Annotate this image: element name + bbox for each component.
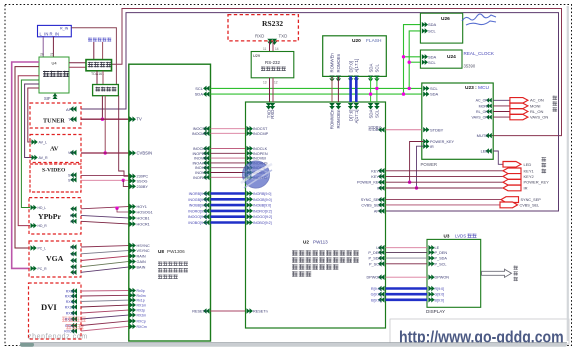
pin U24 SDA bbox=[422, 54, 425, 59]
pin U2 INORB[9:0] bus bbox=[247, 191, 250, 197]
pin RX2p bbox=[74, 310, 77, 315]
svg-text:SDA: SDA bbox=[430, 92, 439, 97]
svg-text:AC_ON: AC_ON bbox=[476, 99, 489, 103]
pin U23 RL_ON bbox=[489, 109, 492, 114]
pin U23 VAVS_ON bbox=[489, 115, 492, 120]
svg-text:230PC: 230PC bbox=[137, 175, 149, 179]
pin HD_R bbox=[31, 223, 34, 228]
pin U23 LED bbox=[488, 148, 491, 153]
svg-text:RESETn: RESETn bbox=[192, 310, 207, 314]
svg-text:230BY: 230BY bbox=[137, 185, 149, 189]
wire RX0m to U8 bbox=[81, 294, 129, 297]
svg-text:POWER_KEY: POWER_KEY bbox=[430, 140, 455, 144]
wire U20 ROMWEn to U2 bbox=[331, 76, 333, 102]
wires U4 to audio amp bbox=[69, 62, 86, 64]
pin U2 P_SCL bbox=[381, 261, 384, 267]
svg-text:SCL: SCL bbox=[428, 29, 437, 34]
pin RX0p bbox=[74, 288, 77, 293]
svg-text:SDA: SDA bbox=[428, 54, 437, 59]
pin U3 B[9:0] bus bbox=[428, 297, 431, 302]
svg-text:POWER: POWER bbox=[421, 162, 438, 167]
pin U2 top ROMOEn bbox=[336, 103, 342, 106]
svg-text:KEY2: KEY2 bbox=[371, 175, 381, 179]
bus INORB[9:0] bbox=[211, 192, 246, 195]
bottom scrollbar bbox=[20, 343, 567, 347]
wire INOCMP bbox=[211, 132, 246, 134]
junction SCL riser base bbox=[408, 87, 411, 90]
block U8 PW1306 ADC/video decoder bbox=[129, 64, 211, 341]
wire SDA stub to U24 bbox=[404, 56, 422, 58]
wire Pr to U8 bbox=[81, 221, 129, 224]
wire AC_ON to power tag bbox=[493, 99, 510, 101]
svg-text:INOCST: INOCST bbox=[193, 127, 208, 131]
wires amp to select box bbox=[96, 71, 98, 85]
pin U8 RXCm bbox=[130, 324, 133, 330]
svg-text:U4: U4 bbox=[51, 61, 57, 66]
wire INOCST bbox=[211, 128, 246, 130]
svg-text:AV: AV bbox=[50, 146, 59, 153]
svg-text:B[9:0]: B[9:0] bbox=[371, 298, 381, 302]
wire HS to U8 bbox=[81, 246, 129, 248]
pin U2 B[9:0] bbox=[381, 297, 384, 303]
svg-text:INOCST: INOCST bbox=[253, 127, 268, 131]
svg-text:INOBO[9:2]: INOBO[9:2] bbox=[188, 221, 207, 225]
wire SCL stub to U24 bbox=[409, 61, 421, 63]
svg-text:INOGB[9:0]: INOGB[9:0] bbox=[253, 198, 272, 202]
svg-text:INOPEN: INOPEN bbox=[192, 152, 207, 156]
svg-text:VAVS_ON: VAVS_ON bbox=[472, 116, 489, 120]
pin Y bbox=[73, 206, 76, 211]
wire audio trunk bbox=[18, 76, 39, 226]
svg-text:PC_L: PC_L bbox=[38, 247, 47, 251]
svg-text:ROMOEn: ROMOEn bbox=[336, 109, 341, 129]
wire INOAHS bbox=[211, 162, 246, 164]
pin U20 A[17:1] bbox=[354, 76, 359, 79]
svg-text:A[17:1]: A[17:1] bbox=[354, 110, 359, 124]
wire RX2m to U8 bbox=[81, 315, 129, 319]
wire SDA riser bbox=[404, 25, 422, 95]
svg-text:MUTE: MUTE bbox=[477, 133, 489, 138]
svg-text:G[9:0]: G[9:0] bbox=[435, 293, 445, 297]
bus INOGB[9:0] bbox=[211, 198, 246, 201]
wire select to TV line bbox=[101, 96, 103, 120]
svg-text:A[17:1]: A[17:1] bbox=[354, 59, 359, 73]
svg-text:PC_R: PC_R bbox=[38, 267, 48, 271]
block audio amplifier bbox=[86, 60, 112, 71]
block U2 PW113 scaler bbox=[246, 102, 386, 328]
pin U8 RX2m bbox=[130, 312, 133, 318]
svg-text:S-C: S-C bbox=[68, 174, 75, 178]
wire AFT net (tuner AFT riser along top to U2 AFT pin) bbox=[81, 13, 559, 211]
wire LED to tag bbox=[493, 151, 503, 164]
svg-text:13: 13 bbox=[263, 81, 267, 85]
wire U20 SCL to U2 bbox=[376, 76, 378, 102]
svg-text:zhenfengdz com: zhenfengdz com bbox=[28, 334, 88, 341]
svg-text:25: 25 bbox=[50, 53, 54, 57]
svg-text:TDA161: TDA161 bbox=[91, 72, 104, 76]
junction SDA drop bbox=[369, 92, 372, 95]
svg-text:SIF: SIF bbox=[44, 96, 51, 101]
svg-text:Rx1p: Rx1p bbox=[137, 299, 145, 303]
wire audio L to U4 bbox=[42, 37, 44, 57]
pin U8 INOPEN bbox=[206, 151, 209, 157]
wire U23 IR branch bbox=[417, 146, 424, 188]
wire I2C SDA bus bbox=[211, 93, 422, 95]
wire audio trunk bbox=[25, 84, 39, 158]
pin U8 SSOG bbox=[130, 178, 133, 184]
svg-text:INORB[9:0]: INORB[9:0] bbox=[189, 192, 207, 196]
svg-text:D[7:0]: D[7:0] bbox=[348, 110, 353, 122]
svg-text:SDA: SDA bbox=[428, 22, 437, 27]
wire INOCLK bbox=[211, 148, 246, 150]
svg-text:INOBB[9:0]: INOBB[9:0] bbox=[189, 204, 207, 208]
svg-text:RX1m: RX1m bbox=[137, 304, 147, 308]
svg-text:KEY1: KEY1 bbox=[371, 169, 381, 173]
pin U2 top SCL bbox=[374, 103, 380, 106]
svg-text:SYNC_SEP: SYNC_SEP bbox=[361, 198, 382, 202]
wire audio trunk bbox=[15, 67, 39, 248]
pin U2 P_DEN bbox=[381, 250, 384, 256]
svg-text:HOSOG1: HOSOG1 bbox=[137, 211, 153, 215]
pin U8 INORB[9:0] bus bbox=[206, 191, 209, 197]
pin U8 HOCB1 bbox=[130, 215, 133, 221]
pin U20 ROMOEn bbox=[336, 76, 341, 79]
svg-text:RXD: RXD bbox=[255, 34, 264, 39]
svg-text:11: 11 bbox=[263, 47, 267, 51]
svg-text:HD_R: HD_R bbox=[38, 224, 48, 228]
svg-text:SCL: SCL bbox=[375, 64, 380, 73]
pin U2 INOCLK bbox=[247, 146, 250, 152]
svg-text:SDA: SDA bbox=[195, 92, 204, 97]
svg-text:U8: U8 bbox=[158, 249, 164, 254]
pin U2 INOHS bbox=[247, 165, 250, 171]
pin U3 R[9:0] bus bbox=[428, 286, 431, 291]
pin U2 INOCMP bbox=[247, 131, 250, 137]
wire VAVS_ON to power tag bbox=[493, 116, 510, 118]
pin U2 INOGO[9:2] bus bbox=[247, 214, 250, 220]
wire audio R to U4 bbox=[52, 37, 54, 57]
tag RL_ON bbox=[510, 109, 528, 114]
pin U8 HOCR1 bbox=[130, 221, 133, 227]
svg-text:LE: LE bbox=[435, 246, 440, 250]
wire INOVBI bbox=[211, 157, 246, 159]
svg-text:INOPEN: INOPEN bbox=[253, 152, 268, 156]
pin U8 SCL bbox=[206, 86, 209, 92]
wire S-Y branch bbox=[123, 179, 129, 181]
pin U2 INOVBI bbox=[247, 155, 250, 161]
block U23 MCU bbox=[422, 83, 493, 159]
pin U8 SDA bbox=[206, 91, 209, 97]
pin U8 Rx1p bbox=[130, 297, 133, 303]
pin U8 RESETn bbox=[206, 308, 209, 314]
wire STDBY bbox=[386, 129, 422, 131]
svg-text:RL_ON: RL_ON bbox=[476, 110, 488, 114]
pin U8 INOFLD bbox=[206, 175, 209, 181]
block U24 real time clock bbox=[420, 50, 462, 68]
svg-text:R: R bbox=[72, 259, 75, 263]
svg-text:B[9:0]: B[9:0] bbox=[435, 298, 444, 302]
svg-text:R[9:0]: R[9:0] bbox=[435, 287, 445, 291]
pin U8 INOAHS bbox=[206, 160, 209, 166]
svg-text:RXD: RXD bbox=[270, 110, 275, 119]
svg-text:VSYNC: VSYNC bbox=[137, 249, 150, 253]
pin U8 HOY1 bbox=[130, 204, 133, 210]
pin U8 Rx0p bbox=[130, 288, 133, 294]
pin R bbox=[73, 258, 76, 263]
svg-text:LE: LE bbox=[376, 246, 381, 250]
pin RX1m bbox=[74, 304, 77, 309]
svg-text:VIN: VIN bbox=[68, 151, 74, 155]
svg-text:SCL: SCL bbox=[428, 60, 437, 65]
svg-text:26: 26 bbox=[40, 53, 44, 57]
svg-text:CVBS_SEL: CVBS_SEL bbox=[520, 203, 540, 207]
svg-text:AV_L: AV_L bbox=[39, 141, 48, 145]
block U3 LVDS encoder bbox=[427, 239, 481, 307]
svg-text:D[7:0]: D[7:0] bbox=[348, 61, 353, 72]
wire U20 ROMOEn to U2 bbox=[337, 76, 339, 102]
svg-text:SDA: SDA bbox=[368, 109, 373, 118]
pin AV_L bbox=[32, 139, 35, 144]
pin HD_L bbox=[31, 205, 34, 210]
pin U2 G[9:0] bbox=[381, 291, 384, 297]
junction POWER_KEY bbox=[408, 181, 411, 184]
junction select-TV bbox=[101, 118, 104, 121]
svg-text:TUNER: TUNER bbox=[43, 118, 65, 125]
pin U23 STDBY bbox=[423, 127, 426, 132]
pin U23 MUTE bbox=[488, 133, 491, 138]
pin U8 INOCST bbox=[206, 126, 209, 132]
svg-text:AV_R: AV_R bbox=[39, 156, 49, 160]
wire RX0p to U8 bbox=[81, 290, 129, 293]
wire U29 TXD to U2 bbox=[269, 78, 271, 102]
svg-text:INOGB[9:0]: INOGB[9:0] bbox=[188, 198, 207, 202]
keypad vertical label bbox=[542, 157, 547, 173]
svg-text:TV: TV bbox=[137, 117, 143, 122]
wire select to CVBS line bbox=[104, 96, 106, 153]
pin U8 INOGO[9:2] bus bbox=[206, 214, 209, 220]
svg-text:IR: IR bbox=[377, 187, 381, 191]
connector AV bbox=[30, 135, 81, 163]
svg-text:RX1m: RX1m bbox=[65, 306, 75, 310]
wire Y to U8 bbox=[81, 207, 129, 209]
pin U2 top D[7:0] bbox=[348, 103, 354, 106]
wire MONI to power tag bbox=[493, 105, 510, 107]
svg-text:POWER_KEY: POWER_KEY bbox=[357, 181, 382, 185]
bus INOBO[9:2] bbox=[211, 221, 246, 224]
svg-text:DVI: DVI bbox=[41, 302, 57, 312]
wire KEY2 from U2 bbox=[386, 175, 504, 177]
pin U8 Rx0m bbox=[130, 293, 133, 299]
pin VIN bbox=[73, 150, 77, 156]
svg-text:Pb: Pb bbox=[70, 214, 74, 218]
wire INOFLD bbox=[211, 176, 246, 178]
svg-text:P_DEN: P_DEN bbox=[368, 251, 381, 255]
svg-text:AC_ON: AC_ON bbox=[530, 98, 544, 103]
junction SDA U24 bbox=[402, 55, 405, 58]
svg-text:RAIN: RAIN bbox=[137, 255, 146, 259]
svg-text:ROMWEn: ROMWEn bbox=[330, 53, 335, 73]
pin U26 SDA bbox=[422, 22, 425, 27]
svg-text:STDBY: STDBY bbox=[368, 125, 381, 129]
svg-text:DPWON: DPWON bbox=[366, 276, 381, 280]
svg-text:HOY1: HOY1 bbox=[137, 205, 147, 209]
svg-text:GAIN: GAIN bbox=[137, 260, 147, 264]
wire B to U8 bbox=[81, 267, 129, 272]
wire INOVS bbox=[211, 172, 246, 174]
svg-text:U29: U29 bbox=[253, 54, 260, 58]
svg-text:L_IN R_IN: L_IN R_IN bbox=[40, 32, 60, 37]
svg-text:35390: 35390 bbox=[464, 64, 476, 69]
svg-text:INOCMP: INOCMP bbox=[253, 132, 269, 136]
pin U2 SYNC_SEP bbox=[381, 197, 384, 203]
pin U20 D[7:0] bbox=[348, 76, 353, 79]
pin U2 INOGB[9:0] bus bbox=[247, 197, 250, 203]
pin U23 MONI bbox=[489, 103, 492, 108]
wire U20 D[7:0] to U2 bbox=[349, 76, 352, 102]
svg-text:RXCp: RXCp bbox=[137, 320, 146, 324]
wire S-C to U8 bbox=[81, 175, 129, 177]
tag CVBS_SEL bbox=[500, 202, 518, 208]
svg-text:AFT: AFT bbox=[66, 107, 74, 112]
pin SIF bbox=[53, 96, 58, 99]
svg-text:SCL: SCL bbox=[430, 86, 439, 91]
wire P_SCL U2 to U3 bbox=[386, 263, 428, 265]
svg-text:SCL: SCL bbox=[195, 86, 204, 91]
svg-text:RESETn: RESETn bbox=[253, 310, 268, 314]
wire INOHS bbox=[211, 167, 246, 169]
svg-text:G[9:0]: G[9:0] bbox=[371, 293, 381, 297]
power board vertical label bbox=[553, 96, 558, 112]
wire TXD to U29 bbox=[272, 41, 274, 52]
svg-text:KEY2: KEY2 bbox=[524, 174, 535, 179]
svg-text:Rx0p: Rx0p bbox=[137, 289, 145, 293]
pin U2 P_SDA bbox=[381, 255, 384, 261]
pin Pb bbox=[73, 213, 76, 218]
pin U8 VSYNC bbox=[130, 248, 133, 254]
audio input connector J1 L_IN R_IN bbox=[38, 25, 72, 36]
pin U23 SCL bbox=[423, 86, 426, 91]
pin AFT bbox=[73, 106, 77, 112]
wire RL_ON to power tag bbox=[493, 111, 510, 113]
wire DPWON U2 to U3 bbox=[386, 276, 428, 278]
svg-text:G: G bbox=[72, 265, 75, 269]
svg-text:P_SCL: P_SCL bbox=[369, 262, 381, 266]
pin U20 SDA bbox=[368, 76, 373, 79]
pin U24 SCL bbox=[422, 60, 425, 65]
svg-text:POWER_KEY: POWER_KEY bbox=[524, 180, 550, 185]
pin G bbox=[73, 264, 76, 269]
svg-text:HD_L: HD_L bbox=[38, 206, 47, 210]
wire Y SOG branch bbox=[117, 208, 129, 212]
pin U8 RAIN bbox=[130, 253, 133, 259]
pin U8 GAIN bbox=[130, 259, 133, 265]
svg-text:RS-232: RS-232 bbox=[265, 60, 280, 65]
wire SCL riser bbox=[409, 31, 421, 89]
bus B[9:0] U2 to U3 bbox=[386, 298, 428, 301]
junction IR bbox=[415, 186, 418, 189]
pin U23 POWER_KEY bbox=[423, 139, 426, 144]
svg-text:INOHS: INOHS bbox=[195, 166, 207, 170]
svg-text:RS232: RS232 bbox=[262, 19, 283, 28]
pin U3 LE bbox=[428, 245, 431, 250]
wire I2C SCL bus bbox=[211, 87, 422, 89]
svg-text:RL_ON: RL_ON bbox=[530, 109, 543, 114]
pin U8 RXCp bbox=[130, 318, 133, 324]
svg-text:CVBS_SEL: CVBS_SEL bbox=[361, 203, 381, 207]
svg-text:U23 :: U23 : bbox=[465, 85, 477, 91]
wire SYNC_SEP bbox=[386, 199, 502, 201]
wire Pb to U8 bbox=[81, 215, 129, 218]
wire LE U2 to U3 bbox=[386, 247, 428, 249]
red stamp watermark bbox=[62, 317, 86, 330]
pin RX1p bbox=[74, 299, 77, 304]
wire audio trunk bbox=[28, 88, 39, 142]
svg-text:BAIN: BAIN bbox=[137, 266, 146, 270]
svg-text:14: 14 bbox=[275, 47, 279, 51]
svg-text:ROMWEn: ROMWEn bbox=[330, 109, 335, 129]
pin U8 230PC bbox=[130, 173, 133, 179]
svg-text:PW1306: PW1306 bbox=[167, 249, 185, 254]
svg-text:R_IN: R_IN bbox=[60, 26, 69, 30]
wire speaker left bbox=[93, 42, 95, 60]
pin U2 CVBS_SEL bbox=[381, 202, 384, 208]
junction select-CVBS bbox=[104, 151, 107, 154]
tag KEY1 bbox=[503, 168, 521, 174]
pin U8 HSYNC bbox=[130, 243, 133, 249]
pin U2 R[9:0] bbox=[381, 286, 384, 292]
svg-text:KEY1: KEY1 bbox=[524, 168, 535, 173]
wire CVBS_SEL bbox=[386, 204, 501, 206]
svg-text:SDA: SDA bbox=[368, 64, 373, 73]
svg-text:HOCB1: HOCB1 bbox=[137, 217, 150, 221]
connector YPbPr bbox=[29, 198, 81, 234]
svg-text:SSOG: SSOG bbox=[137, 179, 148, 183]
wire VS to U8 bbox=[81, 251, 129, 254]
pin AV_R bbox=[32, 155, 35, 160]
svg-text:Rx0m: Rx0m bbox=[137, 294, 146, 298]
pin U8 RX1m bbox=[130, 302, 133, 308]
wire U23 POWER_KEY branch bbox=[410, 142, 424, 183]
pin U2 KEY1 bbox=[381, 168, 384, 174]
svg-text:RX2p: RX2p bbox=[66, 312, 75, 316]
wire P_DEN U2 to U3 bbox=[386, 251, 428, 253]
pin RXCp bbox=[74, 323, 77, 328]
pin RXCm bbox=[74, 328, 77, 333]
svg-text:INOAHS: INOAHS bbox=[192, 161, 207, 165]
pin U2 POWER_KEY bbox=[381, 179, 384, 185]
pin U3 P_DEN bbox=[428, 250, 431, 255]
wire speaker right bbox=[102, 42, 104, 60]
pin U23 IR bbox=[423, 144, 426, 149]
arrow to panel bbox=[482, 269, 512, 277]
svg-text:HS: HS bbox=[70, 246, 76, 250]
svg-text:INOVBI: INOVBI bbox=[253, 157, 266, 161]
svg-text:PW113: PW113 bbox=[313, 240, 328, 245]
pin RX2m bbox=[74, 316, 77, 321]
svg-text:INOVS: INOVS bbox=[195, 171, 207, 175]
connector DVI bbox=[29, 283, 82, 339]
pin U8 INOVS bbox=[206, 170, 209, 176]
pin RX0m bbox=[74, 293, 77, 298]
wire audio trunk bbox=[12, 62, 39, 268]
panel vertical label bbox=[514, 266, 518, 282]
pin U8 CVBSIN bbox=[130, 150, 133, 156]
pin U2 INORO[9:2] bus bbox=[247, 208, 250, 214]
pin U2 INOAHS bbox=[247, 160, 250, 166]
go-gddq watermark panel bbox=[390, 319, 569, 344]
svg-text:INORO[9:2]: INORO[9:2] bbox=[188, 209, 207, 213]
wire audio trunk bbox=[21, 80, 39, 208]
